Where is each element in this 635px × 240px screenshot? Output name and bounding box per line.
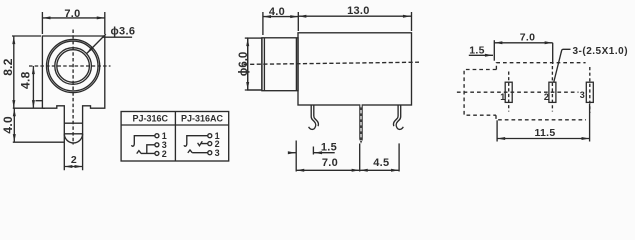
pin interior line bbox=[64, 122, 82, 124]
svg-text:4.8: 4.8 bbox=[18, 71, 32, 89]
horizontal centerline bbox=[29, 65, 111, 67]
leader phi3.6 diagonal with arrow bbox=[87, 34, 106, 54]
leader phi3.6 underline bbox=[103, 36, 132, 38]
dim 7.0 extension lines bbox=[41, 12, 43, 34]
dim phi6.0 line (collinear with nose front face) bbox=[247, 38, 249, 90]
dim 7.0 line (bottom) bbox=[296, 169, 360, 171]
horizontal centerline bbox=[244, 62, 420, 64]
svg-text:1: 1 bbox=[500, 92, 505, 102]
svg-text:13.0: 13.0 bbox=[347, 5, 370, 17]
svg-text:8.2: 8.2 bbox=[1, 58, 15, 76]
svg-text:PJ-316AC: PJ-316AC bbox=[181, 114, 224, 124]
svg-text:3-(2.5X1.0): 3-(2.5X1.0) bbox=[573, 46, 629, 57]
PJ-316C pin1 circle bbox=[155, 134, 159, 138]
leader 3-(2.5X1.0) bbox=[554, 49, 571, 82]
svg-text:11.5: 11.5 bbox=[534, 127, 555, 139]
PJ-316C pin2 wire with caret bbox=[137, 151, 155, 154]
svg-text:4.0: 4.0 bbox=[269, 6, 285, 18]
dim phi6.0 extension lines bbox=[245, 37, 248, 39]
PJ-316AC pin3 wire with caret bbox=[188, 150, 208, 153]
vertical centerline bbox=[72, 30, 74, 145]
dim 8.2 extension lines bbox=[12, 35, 41, 37]
table outer box bbox=[121, 112, 229, 162]
dim 4.0 line (top) bbox=[263, 16, 298, 18]
table header separator bbox=[121, 124, 229, 126]
dim 7.0 line bbox=[42, 17, 104, 19]
dim 4.0 line bbox=[13, 108, 15, 142]
svg-text:2: 2 bbox=[71, 154, 77, 166]
inner hole circle (outer line) bbox=[55, 48, 92, 85]
left pin (hooked leg) bbox=[309, 105, 316, 129]
barrel front face second line bbox=[263, 38, 265, 91]
dim 1.5 (pin) outside arrow left bbox=[288, 152, 296, 154]
inner hole circle (inner line) bbox=[57, 50, 90, 83]
PJ-316AC pin2 circle bbox=[208, 142, 212, 146]
dim 7.0 (right view) line bbox=[494, 42, 552, 44]
main body bbox=[298, 33, 412, 105]
dim 11.5 extension lines bbox=[496, 120, 498, 141]
dim 1.5 extension line bbox=[493, 40, 495, 61]
pad 3 bbox=[586, 82, 593, 102]
pad 1 bbox=[505, 82, 512, 102]
svg-text:4.5: 4.5 bbox=[373, 157, 389, 169]
barrel rear cap edge bbox=[295, 38, 297, 91]
dashed horizontal centerline bbox=[457, 91, 579, 93]
outer barrel circle (outer line) bbox=[47, 39, 100, 92]
pad 2 dashed centerline bbox=[551, 66, 553, 112]
dim 7.0/4.5 extension lines bbox=[295, 141, 297, 172]
dashed outline left tab bbox=[464, 70, 496, 116]
dim 1.5 line with right arrow bbox=[469, 54, 493, 56]
svg-text:1.5: 1.5 bbox=[321, 141, 337, 153]
svg-text:ϕ6.0: ϕ6.0 bbox=[238, 52, 250, 77]
pin rounded tip bbox=[64, 134, 82, 143]
PJ-316C pin1 wire with hook bbox=[132, 136, 155, 147]
nose ring bbox=[248, 38, 262, 90]
svg-text:7.0: 7.0 bbox=[520, 32, 536, 44]
dim 4.0 extension lines (top) bbox=[262, 12, 264, 35]
dim 7.0 right extension (pad2 centerline above) bbox=[552, 43, 554, 64]
PJ-316AC pin3 circle bbox=[208, 151, 212, 155]
svg-text:7.0: 7.0 bbox=[322, 157, 338, 169]
svg-text:ϕ3.6: ϕ3.6 bbox=[111, 26, 136, 38]
dim 4.5 line bbox=[360, 169, 399, 171]
middle pin (dark with dashed centerline) bbox=[359, 105, 363, 140]
svg-text:4.0: 4.0 bbox=[1, 116, 15, 134]
PJ-316C pin3 circle bbox=[155, 143, 159, 147]
pad 2 bbox=[549, 82, 556, 102]
dim 2 line bbox=[64, 166, 82, 168]
PJ-316C pin2 circle bbox=[155, 151, 159, 155]
dim 13.0 extension line (right) bbox=[411, 12, 413, 31]
svg-text:PJ-316C: PJ-316C bbox=[133, 114, 169, 124]
PJ-316AC pin2 wire with check bbox=[198, 141, 208, 146]
dim 1.5 tick bbox=[312, 147, 314, 155]
outer barrel circle (inner line) bbox=[48, 41, 98, 91]
body bottom small ledge tick bbox=[36, 100, 43, 102]
svg-text:3: 3 bbox=[215, 148, 220, 158]
dim 4.0 bottom extension line (pin tip) bbox=[13, 141, 64, 143]
dashed outline main plate bbox=[496, 63, 586, 120]
svg-text:3: 3 bbox=[580, 90, 585, 100]
PJ-316C pin3 wire bbox=[147, 145, 155, 154]
svg-text:7.0: 7.0 bbox=[64, 8, 80, 20]
dim 1.5 line with left arrow bbox=[314, 152, 335, 154]
svg-text:2: 2 bbox=[544, 92, 549, 102]
pad 3 dashed centerline bbox=[589, 67, 591, 113]
PJ-316AC pin1 circle bbox=[208, 134, 212, 138]
dim 13.0 line bbox=[298, 15, 411, 17]
right pin (hooked leg, mirrored) bbox=[393, 105, 403, 129]
dim 8.2 line bbox=[13, 36, 15, 108]
PJ-316AC pin1 wire with hook bbox=[184, 136, 208, 147]
dim 11.5 line bbox=[497, 138, 589, 140]
body outline with bottom feet and center pin bbox=[42, 36, 104, 170]
dim 4.8 line bbox=[32, 66, 34, 108]
pad 1 dashed centerline bbox=[508, 72, 510, 112]
barrel bbox=[262, 38, 298, 91]
pin chord line bbox=[64, 133, 82, 135]
table divider vertical bbox=[174, 112, 176, 162]
svg-text:2: 2 bbox=[162, 149, 167, 159]
